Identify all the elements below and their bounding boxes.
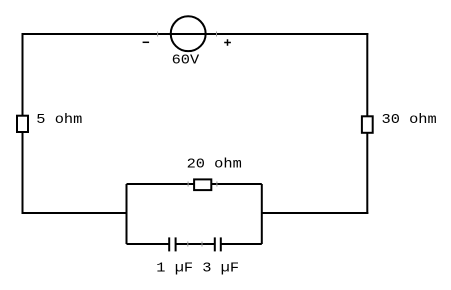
svg-text:5 ohm: 5 ohm — [36, 113, 82, 128]
capacitor C1 right plate — [175, 237, 177, 251]
wire left side vertical — [22, 33, 24, 214]
pin tick 20 ohm left — [187, 182, 189, 187]
pin tick capacitor C2 left — [201, 242, 203, 247]
pin tick 20 ohm right — [216, 182, 218, 187]
pin tick capacitor C1 right — [187, 242, 189, 247]
wire right side vertical — [366, 33, 368, 214]
voltage source 60V circle — [171, 16, 206, 51]
wire top from left corner to right corner through source — [22, 33, 369, 35]
minus polarity mark — [143, 41, 150, 43]
svg-text:30 ohm: 30 ohm — [382, 113, 437, 128]
wire parallel block top branch — [127, 183, 262, 185]
capacitor C1 left plate — [168, 237, 170, 251]
wire bottom branch segment between C1 and C2 — [176, 243, 214, 245]
plus polarity mark — [224, 39, 231, 46]
capacitor C2 left plate — [214, 237, 216, 251]
wire parallel block left vertical — [126, 184, 128, 244]
svg-text:20 ohm: 20 ohm — [187, 157, 242, 172]
wire bottom branch segment left of C1 — [127, 243, 169, 245]
svg-text:1 µF 3 µF: 1 µF 3 µF — [156, 261, 239, 276]
capacitor C2 right plate — [220, 237, 222, 251]
resistor 20 ohm box — [194, 179, 211, 190]
wire bottom left horizontal — [22, 212, 127, 214]
resistor 5 ohm box — [17, 116, 28, 132]
wire parallel block right vertical — [261, 184, 263, 244]
svg-text:60V: 60V — [172, 53, 200, 68]
wire bottom branch segment right of C2 — [222, 243, 262, 245]
pin tick source right — [216, 32, 218, 37]
pin tick source left — [157, 32, 159, 37]
wire bottom right horizontal — [262, 212, 369, 214]
resistor 30 ohm box — [362, 116, 373, 133]
